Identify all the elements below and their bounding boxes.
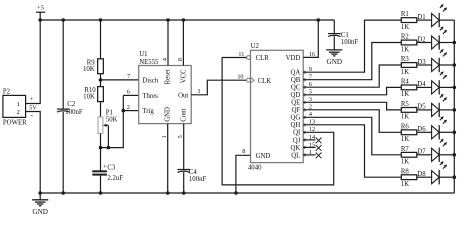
- svg-text:10K: 10K: [83, 66, 95, 73]
- svg-text:13: 13: [309, 119, 315, 126]
- svg-text:R3: R3: [401, 56, 410, 63]
- svg-text:1K: 1K: [401, 181, 409, 188]
- wire D5 to LED rail: [439, 109, 454, 111]
- LED D3: [432, 58, 440, 71]
- svg-text:P2: P2: [3, 89, 11, 96]
- node junction gnd/P2: [38, 191, 42, 195]
- wire U1 pin5 Cont to C4: [183, 124, 185, 170]
- node junction Thres/Trig: [122, 109, 126, 113]
- resistor R7: [401, 152, 417, 157]
- wire C4 to gnd: [183, 172, 185, 193]
- node junction bus/U2-pin16: [317, 18, 321, 22]
- no-connect U2 QL pin1: [303, 154, 305, 156]
- svg-text:QA: QA: [290, 70, 300, 77]
- node junction bus/U1-pin4: [166, 18, 170, 22]
- wire R7 to D7: [417, 154, 432, 156]
- svg-text:1: 1: [17, 101, 20, 108]
- svg-text:+5: +5: [37, 4, 44, 11]
- svg-text:+: +: [103, 162, 107, 170]
- svg-text:R2: R2: [401, 34, 410, 41]
- LED D4: [432, 81, 440, 94]
- svg-text:QG: QG: [290, 115, 300, 122]
- wire D4 to LED rail: [439, 86, 454, 88]
- svg-text:Reset: Reset: [164, 69, 171, 84]
- U2 CLR bubble: [247, 56, 251, 60]
- resistor R9: [98, 59, 104, 74]
- svg-text:QJ: QJ: [293, 137, 301, 144]
- svg-text:8: 8: [242, 148, 245, 155]
- wire U1 pin4 Reset to bus: [167, 20, 169, 66]
- wire R3 to D3: [417, 64, 432, 66]
- svg-text:D5: D5: [417, 104, 426, 111]
- svg-text:100nF: 100nF: [341, 39, 359, 46]
- LED D2: [432, 36, 440, 49]
- wire P1 bottom to C3: [100, 134, 102, 172]
- svg-text:QC: QC: [291, 85, 301, 92]
- wire U1 pin1 GND to gnd: [167, 124, 169, 193]
- svg-text:QK: QK: [290, 145, 300, 152]
- wire C2 branch: [62, 20, 64, 109]
- svg-text:4: 4: [161, 58, 168, 61]
- svg-text:11: 11: [238, 51, 244, 58]
- svg-text:C3: C3: [107, 164, 116, 171]
- resistor R1: [401, 18, 417, 23]
- svg-text:10K: 10K: [83, 94, 95, 101]
- svg-text:1K: 1K: [401, 46, 409, 53]
- svg-text:10: 10: [237, 73, 243, 80]
- svg-text:1K: 1K: [401, 159, 409, 166]
- wire U2 pin11 CLR: [222, 57, 247, 59]
- LED D8: [432, 171, 440, 184]
- svg-text:QD: QD: [290, 92, 300, 99]
- node junction wiper/tap: [107, 146, 111, 150]
- svg-text:D1: D1: [417, 14, 425, 21]
- svg-text:R8: R8: [401, 168, 410, 175]
- wire U1 pin2 Trig: [123, 110, 138, 112]
- wire U2 QI pin12 reset loop to CLR: [303, 131, 305, 133]
- potentiometer P1: [98, 117, 103, 133]
- resistor R4: [401, 85, 417, 90]
- svg-text:+: +: [30, 96, 34, 103]
- wire U2 QD pin5 to R4: [303, 94, 305, 96]
- svg-text:D3: D3: [417, 59, 426, 66]
- wire D2 to LED rail: [439, 42, 454, 44]
- svg-text:1: 1: [309, 149, 312, 156]
- svg-text:GND: GND: [256, 153, 271, 160]
- wire R1 to D1: [417, 19, 432, 21]
- wire R2 to D2: [417, 42, 432, 44]
- svg-text:12: 12: [309, 126, 315, 133]
- svg-text:4: 4: [309, 111, 312, 118]
- node junction bus/C2: [61, 18, 65, 22]
- svg-text:QB: QB: [291, 77, 301, 84]
- wire bus to C1: [333, 20, 335, 34]
- svg-text:R4: R4: [401, 79, 410, 86]
- svg-text:P1: P1: [106, 110, 113, 117]
- svg-text:POWER: POWER: [3, 120, 27, 127]
- connector P2: [3, 95, 26, 117]
- svg-text:1K: 1K: [401, 69, 409, 76]
- wire R5 to D5: [417, 109, 432, 111]
- svg-text:R1: R1: [401, 11, 409, 18]
- wire U1 pin7 Disch: [101, 79, 139, 81]
- svg-text:2: 2: [309, 104, 312, 111]
- ground GND main: [39, 193, 41, 200]
- wire U2 QF pin2 to R6: [303, 109, 305, 111]
- svg-text:VDD: VDD: [286, 55, 301, 62]
- svg-text:1K: 1K: [401, 136, 409, 143]
- svg-text:CLK: CLK: [258, 78, 272, 85]
- node junction bus/R9: [99, 18, 103, 22]
- svg-text:D4: D4: [417, 81, 426, 88]
- svg-text:5: 5: [177, 135, 184, 138]
- svg-text:Out: Out: [178, 92, 188, 99]
- svg-text:R5: R5: [401, 101, 410, 108]
- svg-text:1: 1: [161, 135, 168, 138]
- node junction U2-gnd: [234, 191, 238, 195]
- svg-text:7: 7: [309, 74, 312, 81]
- capacitor C3: [92, 170, 107, 172]
- svg-text:3: 3: [197, 88, 200, 95]
- wire C1 to ground: [333, 36, 335, 50]
- node junction D7/rail: [453, 153, 457, 157]
- svg-text:QH: QH: [290, 122, 300, 129]
- svg-text:NE555: NE555: [139, 59, 159, 66]
- no-connect U2 QJ pin14: [303, 139, 305, 141]
- timer U1 NE555 body: [139, 66, 192, 124]
- resistor R8: [401, 175, 417, 180]
- node junction bus/U1-pin8: [182, 18, 186, 22]
- wire R9 to junction: [100, 74, 102, 87]
- wire U2 QA pin9 to R1: [303, 71, 305, 73]
- svg-text:4040: 4040: [248, 164, 262, 171]
- svg-text:D7: D7: [417, 149, 426, 156]
- svg-text:GND: GND: [327, 58, 343, 66]
- resistor R10: [98, 87, 104, 102]
- node junction bus/+5: [38, 18, 42, 22]
- LED D7: [432, 148, 440, 161]
- wire R10 to P1: [100, 102, 102, 118]
- svg-text:U1: U1: [139, 51, 147, 58]
- svg-text:QI: QI: [293, 130, 301, 137]
- wire D1 to LED rail: [439, 19, 454, 21]
- svg-text:2: 2: [127, 104, 130, 111]
- resistor R2: [401, 40, 417, 45]
- capacitor C1: [328, 33, 341, 35]
- wire +5 supply bus: [40, 19, 334, 21]
- svg-text:9: 9: [309, 66, 312, 73]
- node junction D6/rail: [453, 131, 457, 135]
- capacitor C4: [177, 169, 190, 171]
- node junction C3/gnd: [99, 191, 103, 195]
- wire U2 QG pin4 to R7: [303, 116, 305, 118]
- LED D1: [432, 14, 440, 27]
- svg-text:QF: QF: [292, 107, 301, 114]
- svg-text:R7: R7: [401, 146, 410, 153]
- svg-text:16: 16: [309, 51, 315, 58]
- svg-text:CLR: CLR: [256, 55, 270, 62]
- svg-text:50K: 50K: [106, 117, 118, 124]
- svg-text:GND: GND: [32, 208, 48, 216]
- node junction C2/gnd: [61, 191, 65, 195]
- no-connect U2 QK pin15: [303, 146, 305, 148]
- wire P2 pin1 to +5 rail: [26, 20, 41, 104]
- svg-text:U2: U2: [251, 43, 260, 50]
- svg-text:2.2uF: 2.2uF: [107, 175, 123, 182]
- ground GND at C1: [326, 49, 342, 51]
- wire LED cathode rail: [453, 20, 455, 193]
- svg-text:D2: D2: [417, 36, 426, 43]
- wire D7 to LED rail: [439, 154, 454, 156]
- wire R8 to D8: [417, 176, 432, 178]
- svg-text:D6: D6: [417, 126, 426, 133]
- svg-text:15: 15: [309, 141, 315, 148]
- wire U2 pin16 VDD to bus: [303, 20, 318, 57]
- svg-text:6: 6: [127, 89, 130, 96]
- svg-text:GND: GND: [164, 107, 171, 122]
- wire U1 pin8 VCC to bus: [182, 20, 184, 66]
- wire U2 QE pin3 to R5: [303, 101, 305, 103]
- resistor R5: [401, 108, 417, 113]
- svg-text:C4: C4: [189, 169, 198, 176]
- wire D8 to LED rail: [439, 176, 454, 178]
- node junction pot-bottom/tap: [99, 146, 103, 150]
- node junction D5/rail: [453, 108, 457, 112]
- wire tap to Thres/Trig net: [101, 111, 124, 148]
- capacitor C2: [57, 108, 70, 110]
- svg-text:-: -: [30, 111, 33, 120]
- LED D5: [432, 103, 440, 116]
- svg-text:6: 6: [309, 81, 312, 88]
- svg-text:1K: 1K: [401, 24, 409, 31]
- svg-text:14: 14: [309, 134, 315, 141]
- node junction R9/R10/Disch: [99, 78, 103, 82]
- node junction U1-gnd: [166, 191, 170, 195]
- node junction D4/rail: [453, 86, 457, 90]
- svg-text:QE: QE: [291, 100, 300, 107]
- svg-text:VCC: VCC: [181, 69, 188, 83]
- wire U1 pin6 Thres: [123, 94, 138, 96]
- LED D6: [432, 126, 440, 139]
- node junction C4/gnd: [182, 191, 186, 195]
- svg-text:D8: D8: [417, 171, 426, 178]
- node junction D2/rail: [453, 41, 457, 45]
- node junction D3/rail: [453, 63, 457, 67]
- svg-text:7: 7: [127, 73, 130, 80]
- wire U1 pin3 Out to U2 CLK: [191, 80, 246, 95]
- svg-text:100nF: 100nF: [189, 176, 207, 183]
- wire R6 to D6: [417, 131, 432, 133]
- wire U2 QB pin7 to R2: [303, 79, 305, 81]
- wire U2 pin8 GND to gnd: [236, 155, 251, 193]
- resistor R6: [401, 130, 417, 135]
- wire C3 to gnd: [100, 176, 102, 193]
- wire R4 to D4: [417, 86, 432, 88]
- svg-text:Disch: Disch: [142, 77, 158, 84]
- svg-text:1K: 1K: [401, 114, 409, 121]
- resistor R3: [401, 63, 417, 68]
- svg-text:1K: 1K: [401, 91, 409, 98]
- svg-text:8: 8: [177, 58, 184, 61]
- wire U2 QC pin6 to R3: [303, 86, 305, 88]
- svg-text:Thres: Thres: [142, 93, 158, 100]
- wire D6 to LED rail: [439, 131, 454, 133]
- wire D3 to LED rail: [439, 64, 454, 66]
- wire bus to R9: [100, 20, 102, 59]
- counter U2 4040 body: [251, 50, 304, 162]
- svg-text:2: 2: [17, 109, 20, 116]
- node junction D8/rail: [453, 175, 457, 179]
- wire U2 QH pin13 to R8: [303, 124, 305, 126]
- svg-text:100nF: 100nF: [65, 109, 83, 116]
- svg-text:Cont: Cont: [181, 108, 188, 121]
- svg-text:QL: QL: [291, 152, 300, 159]
- wire P1 wiper down: [107, 125, 109, 147]
- svg-text:R6: R6: [401, 123, 410, 130]
- wire P2 pin2 to ground rail: [26, 112, 41, 194]
- svg-text:C2: C2: [67, 101, 76, 108]
- svg-text:5: 5: [309, 89, 312, 96]
- U2 CLK bubble and edge chevron: [247, 78, 251, 82]
- wire ground bus: [40, 192, 454, 194]
- svg-text:3: 3: [309, 96, 312, 103]
- svg-text:Trig: Trig: [142, 108, 154, 115]
